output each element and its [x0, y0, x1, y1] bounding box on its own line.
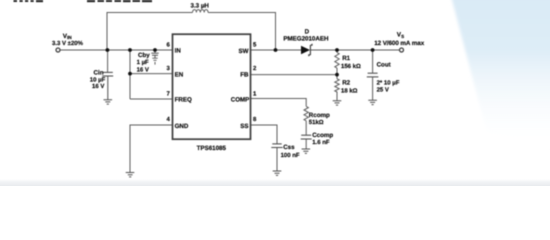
svg-text:VS: VS	[397, 32, 404, 39]
svg-text:Cin: Cin	[94, 70, 104, 77]
capacitor Ccomp plates	[301, 135, 312, 139]
svg-text:Rcomp: Rcomp	[309, 112, 330, 119]
svg-text:2: 2	[253, 65, 257, 72]
wire Cout bottom lead	[372, 77, 374, 100]
svg-text:100 nF: 100 nF	[281, 152, 300, 159]
svg-text:PMEG2010AEH: PMEG2010AEH	[283, 36, 329, 43]
wire Ccomp to ground	[305, 139, 307, 149]
svg-text:16 V: 16 V	[92, 83, 104, 90]
blue corner wash	[451, 0, 550, 150]
svg-text:2* 10 µF: 2* 10 µF	[377, 79, 400, 86]
svg-text:156 kΩ: 156 kΩ	[341, 63, 361, 70]
node VIN / Cin junction	[106, 48, 110, 52]
cut-off text fragment group 2	[87, 0, 152, 2]
svg-text:R1: R1	[342, 55, 350, 62]
wire Rcomp to Ccomp	[305, 121, 307, 135]
ground (GND pin)	[126, 173, 135, 177]
diode D schottky	[301, 44, 312, 56]
svg-text:10 µF: 10 µF	[90, 76, 106, 83]
ground (Css)	[273, 171, 282, 175]
svg-text:Cout: Cout	[377, 62, 391, 69]
svg-text:IN: IN	[175, 48, 182, 55]
ground (Cout)	[368, 100, 377, 104]
svg-text:SS: SS	[240, 123, 248, 130]
svg-text:Cby: Cby	[138, 52, 150, 59]
node VS / R1 junction	[335, 48, 339, 52]
cut-off text fragment group 1	[14, 0, 44, 2]
wire VIN rail	[60, 49, 173, 51]
svg-text:VIN: VIN	[63, 33, 73, 40]
svg-text:3.3 V ±20%: 3.3 V ±20%	[52, 40, 84, 47]
svg-text:8: 8	[253, 116, 257, 123]
svg-text:16 V: 16 V	[137, 66, 149, 73]
inductor L 3.3uH	[193, 10, 209, 13]
wire EN/FREQ feed vertical	[129, 50, 131, 99]
svg-text:6: 6	[167, 41, 171, 48]
svg-text:Ccomp: Ccomp	[312, 132, 333, 139]
svg-text:5: 5	[253, 41, 257, 48]
svg-text:FB: FB	[240, 71, 249, 78]
svg-text:4: 4	[167, 116, 171, 123]
wire inductor to SW node	[208, 13, 275, 51]
svg-text:FREQ: FREQ	[175, 96, 192, 103]
svg-text:D: D	[305, 28, 310, 35]
svg-text:25 V: 25 V	[377, 87, 389, 94]
wire R2 lead to ground	[336, 92, 338, 101]
ground (Ccomp)	[302, 149, 311, 153]
wire top-left segment from VIN junction up and right to inductor	[107, 13, 193, 51]
svg-text:GND: GND	[175, 123, 189, 130]
ground (Cin)	[104, 76, 113, 104]
terminal VS circle	[400, 48, 404, 52]
svg-text:3: 3	[167, 65, 171, 72]
node FB divider junction	[335, 73, 339, 77]
resistor R1 zigzag	[335, 53, 339, 69]
svg-text:COMP: COMP	[231, 96, 250, 103]
svg-text:7: 7	[167, 90, 171, 97]
capacitor Css plates	[271, 144, 282, 148]
ground (Cby mini)	[152, 55, 157, 64]
node VIN / Cby junction	[153, 48, 157, 52]
resistor R2 zigzag	[335, 79, 339, 92]
resistor Rcomp zigzag	[304, 106, 308, 120]
wire SW stub to diode	[251, 49, 302, 51]
wire R1 leads	[336, 50, 338, 53]
node SW junction	[274, 48, 278, 52]
svg-text:EN: EN	[175, 71, 184, 78]
ground (R2)	[333, 101, 342, 105]
svg-text:3.3 µH: 3.3 µH	[191, 3, 210, 10]
bottom grey band	[0, 179, 550, 186]
svg-text:1: 1	[253, 90, 257, 97]
node VIN / EN-FREQ feed junction	[128, 48, 132, 52]
terminal VIN circle	[56, 48, 60, 52]
IC U1 TPS61085 body	[173, 34, 251, 139]
background page	[0, 0, 550, 186]
capacitor Cin plates	[102, 72, 113, 76]
wire EN stub	[130, 73, 173, 75]
svg-text:18 kΩ: 18 kΩ	[341, 87, 358, 94]
svg-text:12 V/600 mA max: 12 V/600 mA max	[374, 40, 425, 47]
svg-text:1 µF: 1 µF	[137, 59, 149, 66]
wire Css to ground	[276, 148, 278, 171]
wire SS to Css	[251, 125, 278, 144]
node VS / Cout junction	[371, 48, 375, 52]
wire Cout top lead	[372, 50, 374, 73]
wire COMP down to Rcomp	[251, 99, 307, 107]
capacitor Cby plates	[151, 53, 158, 55]
capacitor Cout plates	[367, 73, 379, 77]
wire VIN junction down to Cin	[107, 50, 109, 72]
wire GND to ground	[130, 125, 173, 172]
svg-text:51kΩ: 51kΩ	[309, 119, 324, 126]
svg-text:R2: R2	[342, 79, 350, 86]
svg-text:TPS61085: TPS61085	[197, 145, 227, 152]
wire diode cathode to VS terminal	[311, 49, 400, 51]
node EN junction	[128, 72, 132, 76]
svg-text:1.6 nF: 1.6 nF	[312, 139, 330, 146]
wire FB to divider	[251, 74, 338, 76]
wire FREQ stub	[130, 98, 173, 100]
svg-text:SW: SW	[239, 48, 249, 55]
wire Cby stub	[154, 50, 156, 53]
svg-text:Css: Css	[283, 144, 295, 151]
